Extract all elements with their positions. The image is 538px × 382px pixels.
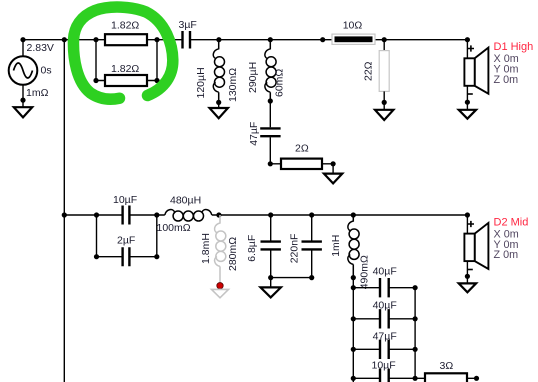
junction R-pair right (154, 37, 159, 42)
junction L1mH top (351, 212, 356, 217)
junction source top (20, 37, 25, 42)
svg-text:D1 High: D1 High (494, 41, 534, 53)
resistor R 2ohm (268, 142, 343, 183)
junction C220nF top (309, 212, 314, 217)
svg-text:60mΩ: 60mΩ (273, 69, 285, 97)
green marker annotation circle (73, 7, 172, 99)
svg-text:2.83V: 2.83V (27, 42, 54, 54)
svg-text:3Ω: 3Ω (440, 360, 454, 372)
svg-text:490mΩ: 490mΩ (359, 255, 371, 289)
junction D1 top (465, 37, 470, 42)
junction L480uH right / L1.8mH top (216, 212, 221, 217)
svg-text:2µF: 2µF (117, 235, 135, 247)
resistor R 3ohm (415, 360, 479, 382)
wire ladder right rail (414, 288, 416, 379)
inductor L 1mH 490mohm (330, 215, 371, 289)
svg-text:10Ω: 10Ω (343, 20, 363, 32)
svg-text:290µH: 290µH (247, 62, 259, 93)
junction C-pair left (94, 212, 99, 217)
capacitor C 220nF (289, 215, 322, 280)
capacitor C 47uF rung3 (351, 330, 418, 359)
svg-text:0s: 0s (41, 65, 52, 77)
junction D2 top (465, 212, 470, 217)
junction mid rail to left bus (62, 212, 67, 217)
inductor L 120uH 130mohm (195, 40, 239, 119)
svg-text:1.82Ω: 1.82Ω (111, 20, 139, 32)
junction L290uH top (268, 37, 273, 42)
svg-text:220nF: 220nF (289, 234, 301, 264)
wire top rail right of 3uF cap (191, 39, 332, 41)
wire mid rail right of 480uH (212, 214, 468, 216)
resistor R 10ohm (332, 20, 375, 45)
svg-text:22Ω: 22Ω (363, 61, 375, 81)
capacitor C 6.8uF (246, 215, 312, 297)
svg-text:40µF: 40µF (373, 300, 397, 312)
speaker D1 High (459, 40, 534, 119)
resistor R 22ohm (363, 40, 394, 120)
capacitor ladder rails (353, 278, 415, 382)
wire top rail (23, 39, 182, 41)
svg-text:1.8mH: 1.8mH (200, 233, 212, 264)
wire left bus vertical (63, 40, 65, 382)
svg-text:40µF: 40µF (373, 266, 397, 278)
svg-text:D2 Mid: D2 Mid (494, 217, 529, 229)
svg-text:1mH: 1mH (330, 235, 342, 257)
junction R-pair left (93, 37, 98, 42)
junction R22 top (382, 37, 387, 42)
svg-text:Z 0m: Z 0m (494, 249, 519, 261)
capacitor C 2uF parallel branch (94, 215, 159, 266)
capacitor C 47uF (248, 101, 281, 164)
junction L120uH top (216, 37, 221, 42)
svg-text:480µH: 480µH (170, 194, 201, 206)
voltage source V1 (9, 40, 54, 118)
speaker D2 Mid (459, 215, 529, 292)
svg-text:2Ω: 2Ω (295, 142, 309, 154)
svg-text:1mΩ: 1mΩ (26, 87, 49, 99)
capacitor C 3uF (179, 19, 197, 49)
wire mid rail (64, 214, 122, 216)
junction left of R10 (320, 37, 325, 42)
svg-text:130mΩ: 130mΩ (227, 68, 239, 102)
capacitor C 40uF rung1 (351, 266, 418, 298)
capacitor C 40uF rung2 (351, 300, 418, 329)
svg-text:6.8µF: 6.8µF (246, 235, 258, 262)
svg-text:10µF: 10µF (372, 360, 396, 372)
svg-text:1.82Ω: 1.82Ω (111, 63, 139, 75)
junction C6.8uF top (268, 212, 273, 217)
wire mid rail right of 10uF (130, 214, 165, 216)
wire ladder left rail (352, 278, 354, 382)
junction C-pair right (154, 212, 159, 217)
svg-text:Z 0m: Z 0m (494, 74, 519, 86)
svg-text:47µF: 47µF (373, 330, 397, 342)
svg-text:120µH: 120µH (195, 67, 207, 98)
capacitor C 10uF (113, 194, 137, 225)
svg-text:3µF: 3µF (179, 19, 197, 31)
svg-text:10µF: 10µF (113, 194, 137, 206)
resistor R upper 1.82ohm (105, 20, 147, 46)
svg-text:47µF: 47µF (248, 122, 260, 146)
capacitor C 10uF rung4 (351, 360, 418, 382)
svg-text:280mΩ: 280mΩ (227, 237, 239, 271)
svg-text:100mΩ: 100mΩ (157, 222, 191, 234)
inductor L 480uH 100mohm (157, 194, 212, 234)
inductor L 1.8mH 280mohm (ghost gray) (200, 215, 239, 298)
resistor R lower 1.82ohm parallel branch (93, 40, 159, 86)
junction top rail to left bus (62, 37, 67, 42)
inductor L 290uH 60mohm (247, 40, 285, 104)
wire top rail right of 10ohm (375, 39, 467, 41)
